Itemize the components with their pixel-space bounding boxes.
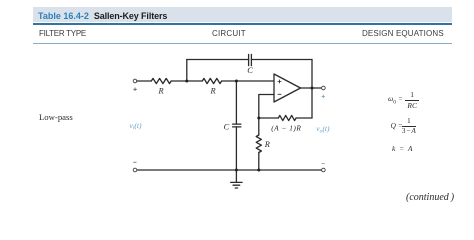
wire R3 to ground rail (258, 153, 260, 171)
ground (235, 170, 237, 182)
svg-text:C: C (247, 66, 253, 75)
design equation Q (391, 116, 416, 136)
wire node C to RA (259, 117, 279, 119)
op-amp U1 (274, 74, 301, 102)
wire op-amp output (301, 87, 322, 89)
ground rail junction 1 (235, 169, 238, 172)
output terminal - (322, 168, 326, 172)
output + polarity (322, 95, 326, 99)
op-amp + pin (278, 80, 282, 84)
wire R1 to R2 (171, 80, 202, 82)
input + polarity (133, 88, 137, 92)
wire C2 to ground rail (235, 127, 237, 170)
node A junction (185, 80, 188, 83)
output node junction (311, 87, 314, 90)
resistor R2 (202, 78, 221, 83)
wire node C down to R3 (258, 118, 260, 135)
top wire capacitor to right (251, 59, 312, 61)
wire inverting input (259, 95, 274, 119)
svg-text:C: C (224, 123, 230, 132)
resistor R3 (256, 135, 261, 153)
ground rail junction 2 (257, 169, 260, 172)
op-amp - pin (278, 93, 282, 95)
bottom rail wire (137, 169, 322, 171)
rule under header (33, 23, 452, 25)
input terminal - (133, 168, 137, 172)
input - polarity (133, 161, 136, 163)
rule under column headers (33, 43, 452, 44)
node B junction (235, 80, 238, 83)
output - polarity (322, 162, 325, 164)
design equation k (392, 144, 412, 153)
capacitor C1 plates (248, 54, 250, 65)
wire node A up to top rail (186, 60, 188, 82)
svg-text:vi(t): vi(t) (130, 121, 142, 131)
wire R2 to op-amp + input (222, 80, 274, 82)
design equation omega0 (388, 90, 419, 110)
svg-text:R: R (158, 87, 164, 96)
capacitor C2 plates (233, 123, 241, 125)
row label Low-pass (39, 112, 73, 122)
wire right vertical down to feedback corner (311, 60, 313, 119)
wire input to R1 (137, 80, 152, 82)
top wire to capacitor C1 (187, 59, 249, 61)
svg-text:vo(t): vo(t) (316, 124, 330, 134)
svg-text:R: R (210, 87, 216, 96)
node C junction (257, 117, 260, 120)
resistor R1 (151, 78, 171, 83)
header bar (33, 7, 452, 22)
svg-text:R: R (264, 140, 270, 149)
wire node B down to capacitor C2 (235, 81, 237, 124)
continued note (406, 192, 454, 203)
resistor (A-1)R (278, 115, 296, 120)
output terminal + (322, 86, 326, 90)
input terminal + (133, 79, 137, 83)
svg-text:(A − 1)R: (A − 1)R (271, 124, 301, 133)
column headers (39, 29, 86, 38)
wire RA to output branch (296, 117, 312, 119)
